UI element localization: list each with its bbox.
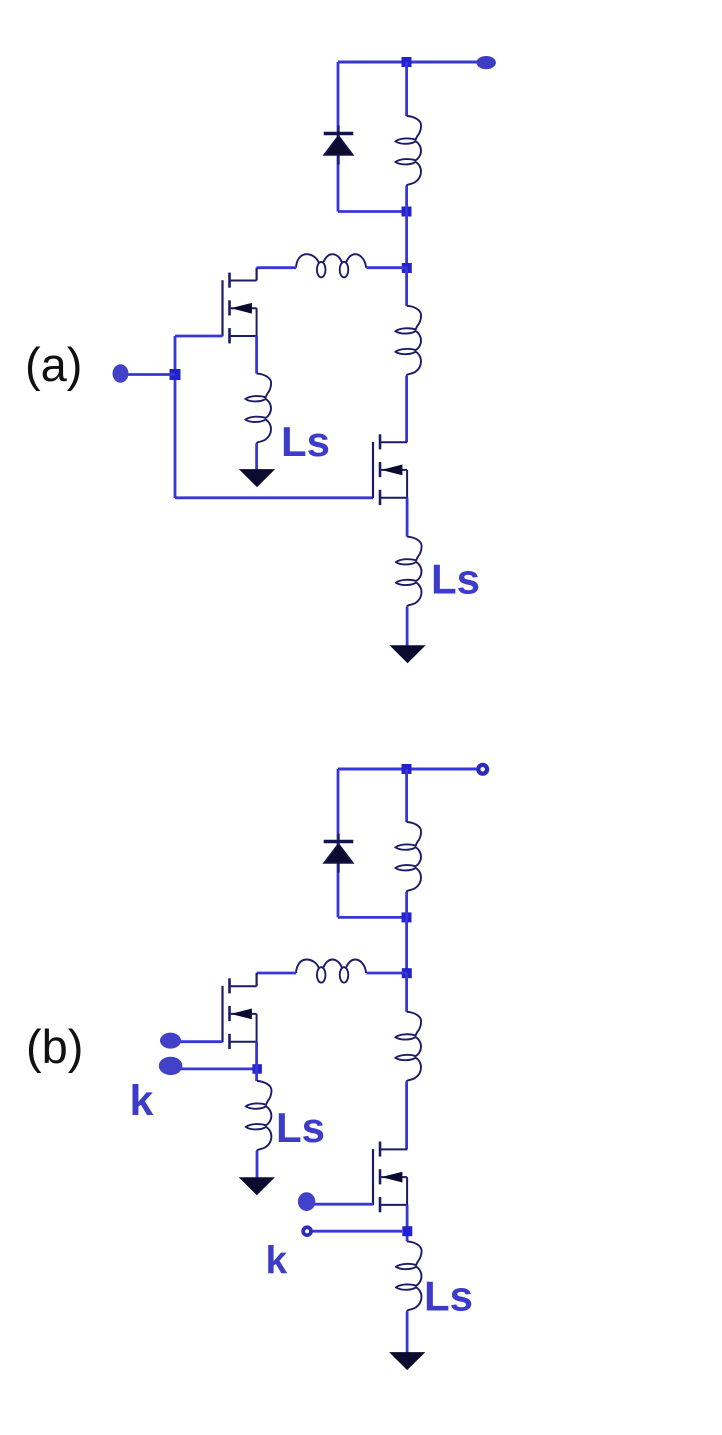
terminal source tap k (b) (159, 1057, 183, 1075)
inductor L1 top (b) (396, 822, 422, 892)
wire L1 to junction (a) (405, 186, 408, 212)
wire bottom of parallel (a) (338, 210, 407, 213)
wire source tap lead (b) (178, 1068, 257, 1071)
wire left branch vertical (a) (337, 62, 340, 212)
wire junction to inductor L1 (a) (405, 62, 408, 116)
ground G1 (b) (240, 1178, 274, 1195)
wire mid node to gate inductor (a) (366, 266, 406, 269)
svg-text:k: k (130, 1077, 154, 1125)
wire mid node to L3 (b) (405, 973, 408, 1012)
svg-text:Ls: Ls (431, 556, 480, 603)
wire junction to mid node (b) (405, 917, 408, 973)
inductor L3 right (a) (396, 306, 422, 376)
wire bottom of parallel (b) (338, 916, 407, 919)
wire M1 source to Ls (b) (255, 1042, 258, 1081)
node junction top (a) (402, 57, 412, 67)
ground G1 (a) (240, 470, 274, 487)
terminal output ring (b) (478, 765, 487, 774)
inductor Ls2 (b) (396, 1241, 422, 1311)
wire L2 to M1 drain (b) (257, 972, 296, 975)
transistor M1 (a) (223, 273, 257, 344)
inductor L2 horizontal (b) (296, 960, 366, 983)
node junction bottom of parallel (b) (402, 912, 412, 922)
ground G2 (a) (391, 646, 425, 663)
wire M2 source (b) (406, 1205, 409, 1242)
node k tap junction (b) (402, 1226, 412, 1236)
wire M2 gate lead (b) (314, 1203, 373, 1206)
wire top rail (b) (338, 768, 477, 771)
wire top rail (a) (338, 61, 478, 64)
terminal M2 gate (b) (298, 1192, 315, 1211)
node mid junction (b) (402, 968, 412, 978)
terminal input (a) (113, 364, 129, 382)
svg-text:Ls: Ls (276, 1104, 325, 1151)
transistor M1 (b) (223, 978, 257, 1049)
wire junction to inductor L1 (b) (405, 769, 408, 822)
wire M1 source to Ls (a) (255, 336, 258, 374)
terminal k ring (b) (303, 1227, 311, 1235)
wire M1 gate lead (b) (178, 1040, 223, 1043)
inductor L1 top (a) (396, 116, 422, 186)
node input junction (a) (170, 369, 181, 380)
wire Ls1 to ground (a) (255, 444, 258, 470)
node junction bottom of parallel (a) (402, 207, 412, 217)
svg-text:Ls: Ls (424, 1273, 473, 1320)
wire L2 to M1 drain (a) (257, 266, 296, 269)
wire L3 to M2 drain (b) (405, 1082, 408, 1150)
wire mid node to gate inductor (b) (366, 972, 406, 975)
wire M1 drain riser (a) (256, 268, 258, 281)
diode D1 (324, 126, 354, 165)
wire k tap lead (b) (312, 1230, 402, 1233)
inductor Ls2 (a) (396, 537, 422, 607)
inductor Ls1 (a) (246, 374, 272, 444)
transistor M2 (a) (373, 434, 407, 505)
inductor L3 right (b) (396, 1012, 422, 1082)
wire left branch vertical (b) (337, 769, 340, 917)
node mid junction (a) (402, 263, 412, 273)
svg-text:Ls: Ls (281, 418, 330, 465)
wire mid node to L3 (a) (405, 268, 408, 306)
wire L1 to junction (b) (405, 892, 408, 917)
ground G2 (b) (390, 1353, 424, 1370)
wire junction to mid node (a) (405, 212, 408, 268)
svg-text:k: k (266, 1240, 288, 1283)
svg-text:(a): (a) (25, 338, 82, 391)
wire M1 drain riser (b) (256, 973, 258, 986)
node junction top (b) (402, 764, 412, 774)
wire gate bus bottom (a) (175, 496, 373, 499)
inductor L2 horizontal (a) (296, 254, 366, 277)
svg-text:(b): (b) (26, 1020, 83, 1073)
wire input lead (a) (126, 373, 175, 376)
inductor Ls1 (b) (246, 1081, 272, 1151)
wire M1 gate lead (a) (175, 335, 223, 338)
wire M2 source to Ls (a) (406, 498, 409, 537)
terminal output (a) (477, 56, 496, 69)
wire Ls1 to ground (b) (256, 1151, 259, 1178)
transistor M2 (b) (373, 1142, 407, 1213)
node source tap junction (b) (252, 1064, 262, 1074)
terminal gate k (b) (160, 1033, 181, 1049)
wire Ls2 to ground (b) (406, 1311, 409, 1353)
wire L3 to M2 drain (a) (405, 376, 408, 442)
diode D2 (324, 834, 354, 873)
wire input vertical (a) (174, 336, 177, 498)
wire Ls2 to ground (a) (406, 607, 409, 646)
